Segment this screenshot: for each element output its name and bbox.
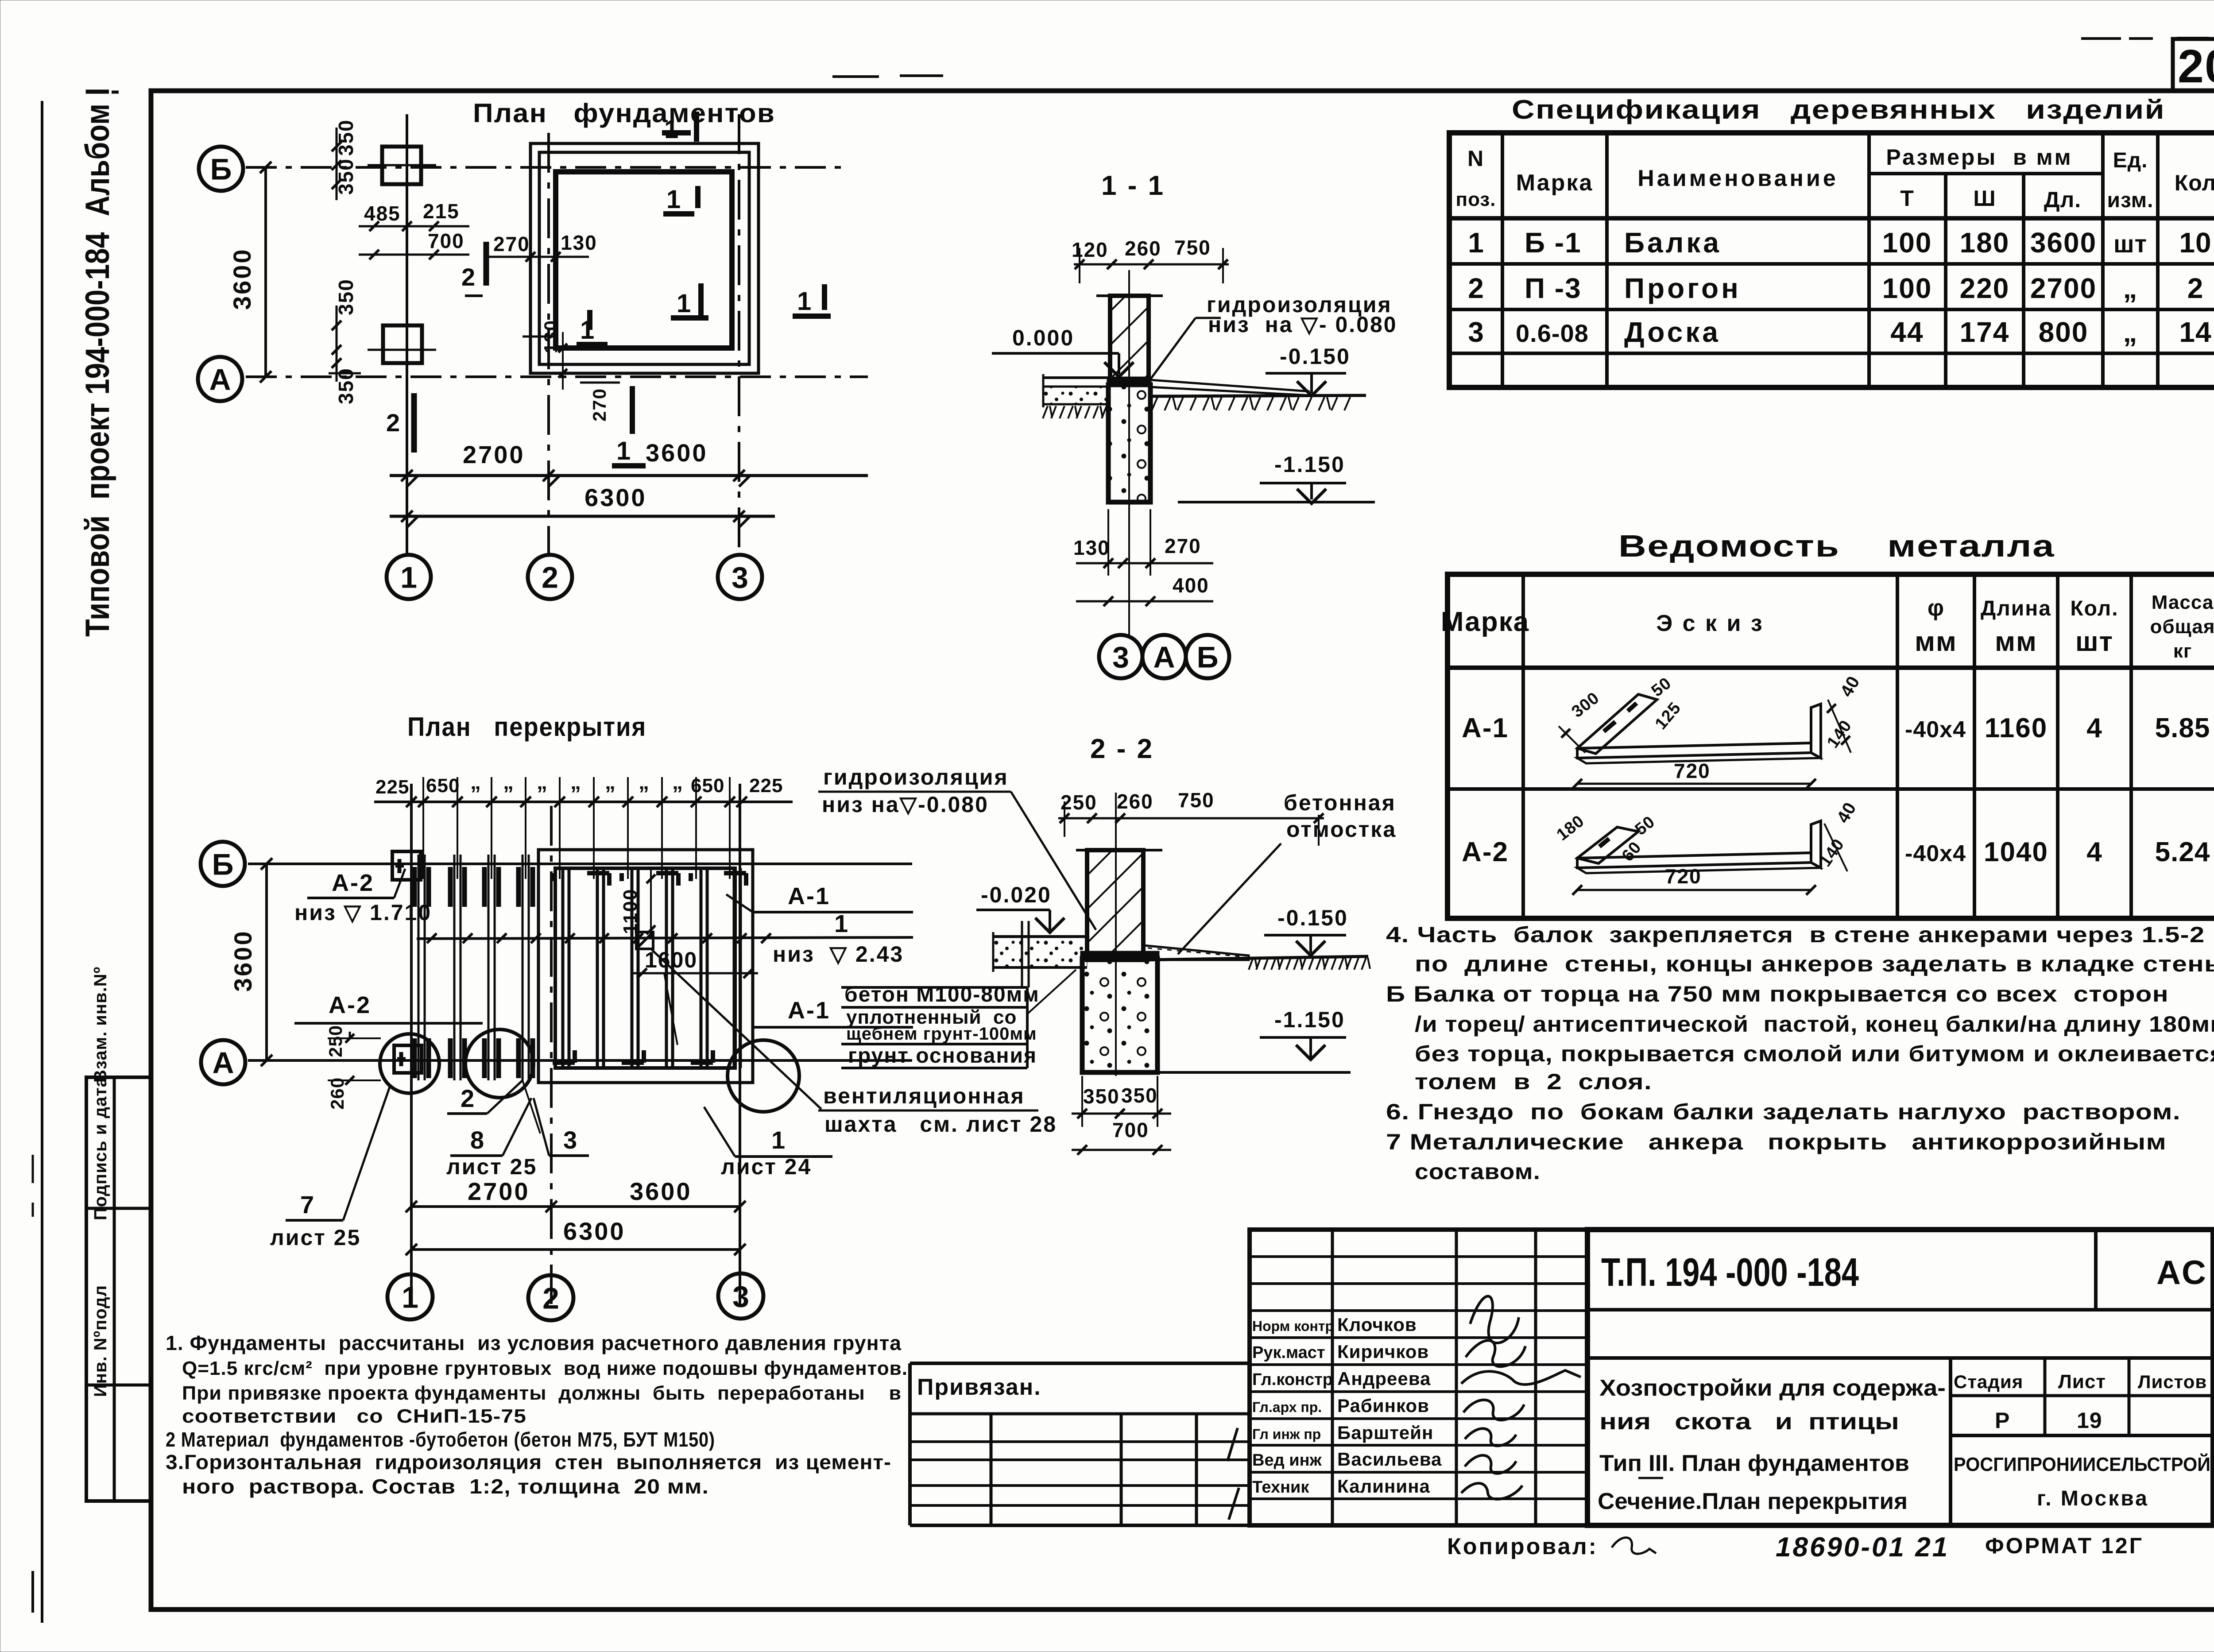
fp leader vent shaft [652,950,821,1109]
svg-text:4: 4 [2086,713,2102,743]
svg-text:низ на ▽- 0.080: низ на ▽- 0.080 [1208,312,1397,337]
svg-text:260: 260 [1117,790,1153,813]
svg-text:N: N [1467,146,1484,171]
svg-text:φ: φ [1928,595,1944,621]
svg-text:3600: 3600 [229,929,257,992]
svg-text:2 Материал фундаментов -бутоб: 2 Материал фундаментов -бутобетон (бетон… [166,1428,715,1451]
axis 2 vertical (fund plan) [547,133,550,556]
svg-text:А-2: А-2 [332,870,374,896]
svg-text:1100: 1100 [619,889,641,934]
svg-text:1: 1 [771,1126,785,1154]
axis 1 vertical (fund plan) [406,114,408,556]
svg-text:3600: 3600 [630,1177,692,1205]
anchor sketch A-2 [1577,853,1811,868]
sec1-1 wall hatched [1110,296,1149,385]
svg-text:шт: шт [2113,230,2147,258]
axis line B (fund plan) [246,166,841,169]
svg-text:Б: Б [210,152,232,186]
svg-text:/и торец/ антисептической пас: /и торец/ антисептической пастой, конец … [1415,1012,2214,1037]
vertical dim 3600 between A and B [264,167,267,377]
svg-text:Т: Т [1900,186,1914,211]
svg-text:А-2: А-2 [329,992,371,1018]
svg-text:270: 270 [1165,534,1201,557]
svg-text:Типовой проект 194-000-184 А: Типовой проект 194-000-184 Альбом I [79,88,116,637]
svg-text:1160: 1160 [1985,713,2048,743]
privyazan block [910,1362,1250,1365]
svg-text:3600: 3600 [646,439,708,467]
svg-text:5.24: 5.24 [2155,837,2210,867]
svg-text:174: 174 [1960,316,2010,348]
svg-text:составом.: составом. [1415,1159,1541,1184]
fund pad at axis B [382,147,421,184]
svg-text:без торца, покрывается смолой: без торца, покрывается смолой или битумо… [1415,1041,2214,1066]
svg-text:Ед.: Ед. [2113,149,2148,172]
svg-text:3: 3 [1468,316,1484,348]
s22 foundation concrete [1082,959,1157,1072]
svg-text:Клочков: Клочков [1337,1314,1417,1335]
svg-text:2: 2 [2187,272,2204,304]
svg-text:Гл.арх пр.: Гл.арх пр. [1252,1399,1322,1415]
svg-text:130: 130 [561,231,597,254]
svg-text:1: 1 [664,115,678,144]
svg-text:Кол: Кол [2175,170,2214,195]
svg-text:грунт основания: грунт основания [848,1044,1037,1068]
svg-text:1: 1 [1468,227,1484,259]
svg-text:изм.: изм. [2107,189,2153,212]
svg-text:130: 130 [1073,536,1110,559]
axis circle 3 [718,555,762,599]
svg-text:2: 2 [1468,272,1484,304]
svg-text:225: 225 [375,776,409,798]
svg-text:3: 3 [732,1280,749,1313]
svg-text:„: „ [470,770,481,794]
s22 wall hatched [1087,850,1143,960]
svg-text:19: 19 [2077,1408,2102,1433]
fp detail circle 1 (list 24) [728,1040,799,1112]
svg-text:650: 650 [691,775,724,797]
svg-text:шахта см. лист 28: шахта см. лист 28 [824,1112,1057,1137]
svg-text:4. Часть балок закрепляется: 4. Часть балок закрепляется в стене анке… [1386,922,2214,947]
svg-text:Ведомость металла: Ведомость металла [1618,529,2055,563]
svg-text:РОСГИПРОНИИСЕЛЬСТРОЙ: РОСГИПРОНИИСЕЛЬСТРОЙ [1954,1453,2210,1475]
svg-text:ния скота и птицы: ния скота и птицы [1599,1409,1899,1435]
fp axis circle 2 [528,1275,573,1320]
svg-text:Размеры в мм: Размеры в мм [1886,145,2072,170]
svg-text:1: 1 [797,287,811,316]
fp building outline outer [538,850,753,1083]
svg-text:Барштейн: Барштейн [1337,1422,1433,1443]
svg-text:Техник: Техник [1252,1478,1309,1497]
svg-text:-1.150: -1.150 [1274,452,1345,477]
s22 otmostka wedge [1143,945,1249,960]
svg-text:Рабинков: Рабинков [1337,1395,1429,1416]
svg-text:Взам. инв.Nº: Взам. инв.Nº [91,967,110,1083]
svg-text:План фундаментов: План фундаментов [473,98,775,128]
fp section line 1 horizontal [417,937,913,939]
fp left part tick pairs bottom [412,1038,417,1078]
svg-text:вентиляционная: вентиляционная [823,1083,1025,1108]
svg-text:2: 2 [461,1084,474,1112]
svg-text:6300: 6300 [584,484,647,511]
svg-text:10: 10 [2179,227,2211,259]
svg-text:А-2: А-2 [1462,837,1509,867]
svg-text:2: 2 [542,561,558,594]
svg-text:Лист: Лист [2058,1371,2106,1393]
svg-text:3600: 3600 [2030,227,2097,259]
fp beam end caps [587,871,609,875]
svg-text:1: 1 [666,185,681,214]
spec table grid [1449,133,2214,387]
svg-text:400: 400 [1173,574,1209,597]
svg-text:-0.020: -0.020 [981,882,1052,907]
svg-text:120: 120 [1072,238,1108,261]
svg-text:6300: 6300 [563,1217,626,1245]
svg-text:485: 485 [364,202,401,225]
svg-text:Б: Б [212,847,234,881]
svg-text:260: 260 [327,1077,348,1110]
axis circle A [198,357,242,401]
svg-text:Балка: Балка [1624,227,1722,259]
svg-text:-1.150: -1.150 [1274,1007,1345,1032]
svg-text:2700: 2700 [463,441,525,468]
metal table grid [1448,574,2214,918]
svg-text:Листов: Листов [2138,1371,2207,1392]
svg-text:толем в 2 слоя.: толем в 2 слоя. [1415,1069,1652,1094]
svg-text:лист 25: лист 25 [270,1225,361,1250]
svg-text:Спецификация деревянных из: Спецификация деревянных изделий [1512,95,2165,124]
fund pad at axis A [383,325,422,363]
svg-text:При привязке проекта фундамент: При привязке проекта фундаменты должны б… [182,1382,902,1404]
svg-text:лист 24: лист 24 [721,1154,812,1179]
fp axis A line [248,1059,912,1062]
strip footing outer rect [530,143,759,373]
svg-text:1: 1 [677,289,691,318]
svg-text:Масса: Масса [2152,592,2214,613]
svg-text:8: 8 [470,1126,484,1154]
svg-text:260: 260 [1125,237,1161,260]
fp left part boards (doski) [418,855,420,1080]
svg-text:Прогон: Прогон [1624,272,1741,304]
fp vertical axis 2 [550,806,553,1304]
sheet number box 20 [2173,39,2214,91]
svg-text:щебнем грунт-100мм: щебнем грунт-100мм [846,1024,1037,1044]
svg-text:Тип III. План фундаментов: Тип III. План фундаментов [1599,1451,1909,1476]
axis line A (fund plan) [246,375,868,378]
svg-text:А: А [212,1046,234,1079]
sec1-1 foundation concrete [1108,385,1150,502]
signatures squiggles [1470,1296,1519,1343]
svg-text:1: 1 [402,1281,418,1314]
svg-text:Доска: Доска [1624,316,1721,348]
svg-text:А: А [1153,640,1175,674]
svg-text:лист 25: лист 25 [446,1154,537,1179]
leader to wall [1149,318,1196,382]
svg-text:„: „ [2123,272,2138,304]
svg-text:100: 100 [1882,227,1932,259]
svg-text:Гл инж пр: Гл инж пр [1252,1426,1321,1442]
svg-text:180: 180 [1960,227,2010,259]
svg-text:„: „ [639,770,649,794]
svg-text:800: 800 [2039,316,2089,348]
s22 ground line right [1143,956,1368,960]
svg-text:Наименование: Наименование [1637,166,1839,191]
svg-text:„: „ [2123,316,2138,348]
svg-text:„: „ [605,770,615,794]
svg-text:Б -1: Б -1 [1525,227,1582,259]
svg-text:А-1: А-1 [788,997,830,1024]
svg-text:мм: мм [1915,627,1957,657]
svg-text:бетонная: бетонная [1284,790,1396,815]
svg-text:7 Металлические анкера пок: 7 Металлические анкера покрыть антикорро… [1386,1130,2167,1154]
svg-text:20: 20 [2178,40,2214,93]
svg-text:Ш: Ш [1973,186,1996,211]
fp vertical dim 3600 [265,864,268,1060]
svg-text:3: 3 [1112,640,1129,674]
svg-text:3600: 3600 [228,248,256,310]
svg-text:поз.: поз. [1456,189,1496,210]
svg-text:Р: Р [1995,1408,2009,1433]
svg-text:„: „ [503,770,514,794]
svg-text:Инв. Nºподл: Инв. Nºподл [91,1285,110,1397]
svg-text:350: 350 [334,119,357,156]
svg-text:720: 720 [1674,759,1711,782]
svg-text:2700: 2700 [468,1177,530,1205]
left mini table (inv numbers) [86,1077,151,1501]
axis 3 vertical (fund plan) [738,114,740,556]
svg-text:-40х4: -40х4 [1905,717,1966,743]
svg-text:250: 250 [325,1025,346,1057]
fp anchor symbol top left A-2 [392,851,421,880]
svg-text:4: 4 [2086,837,2102,867]
scan edge dashes [31,1571,34,1613]
svg-text:Б Балка от торца на 750 мм пок: Б Балка от торца на 750 мм покрывается с… [1386,982,2169,1006]
svg-text:350: 350 [1083,1085,1120,1108]
s22 floor slab left [993,935,1087,938]
title area main [1587,1230,2213,1525]
svg-text:Хозпостройки для содержа-: Хозпостройки для содержа- [1599,1375,1946,1401]
svg-text:1: 1 [400,561,417,594]
svg-text:А-1: А-1 [1462,713,1509,743]
svg-text:6. Гнездо по бокам балки зад: 6. Гнездо по бокам балки заделать наглух… [1386,1099,2181,1124]
svg-text:-40х4: -40х4 [1905,841,1966,867]
svg-text:1040: 1040 [1984,837,2048,867]
fp axis circle 3 [718,1273,763,1319]
svg-text:2: 2 [461,263,475,291]
svg-text:3: 3 [732,561,748,594]
svg-text:Т.П. 194 -000 -184: Т.П. 194 -000 -184 [1601,1250,1859,1295]
fp axis circle A [201,1040,245,1084]
svg-text:-0.150: -0.150 [1277,905,1348,930]
svg-text:700: 700 [1112,1118,1149,1141]
svg-text:270: 270 [493,232,530,255]
svg-text:мм: мм [1995,627,2037,657]
svg-text:1: 1 [616,437,631,465]
svg-text:Копировал:: Копировал: [1447,1534,1598,1559]
sec1-1 otmostka wedge right [1150,380,1310,391]
sec1-1 floor slab left [1043,376,1110,379]
svg-text:720: 720 [1665,865,1702,888]
svg-text:низ ▽ 1.710: низ ▽ 1.710 [294,900,432,925]
svg-text:общая: общая [2150,616,2214,638]
svg-text:Э с к и з: Э с к и з [1656,611,1764,636]
svg-text:225: 225 [749,775,783,797]
svg-text:А: А [209,363,231,396]
sec1-1 ground left hatch [1043,403,1110,406]
fp building inner rect [555,868,735,1068]
fp detail circle 8 [465,1029,534,1098]
svg-text:Дл.: Дл. [2044,187,2081,212]
svg-text:Подпись и дата: Подпись и дата [91,1077,110,1220]
svg-text:соответствии со СНиП-15-75: соответствии со СНиП-15-75 [182,1405,526,1427]
svg-text:по длине стены, концы анкеро: по длине стены, концы анкеров заделать в… [1415,952,2214,976]
svg-text:18690-01 21: 18690-01 21 [1776,1532,1949,1563]
svg-text:ного раствора. Состав 1:2, т: ного раствора. Состав 1:2, толщина 20 мм… [182,1475,709,1498]
axis circle B [199,147,243,191]
svg-text:2 - 2: 2 - 2 [1090,734,1154,764]
axis circle 1 [387,555,431,599]
svg-text:Длина: Длина [1981,597,2051,620]
svg-text:750: 750 [1178,789,1215,812]
scan edge line left [41,101,43,1623]
svg-text:гидроизоляция: гидроизоляция [823,765,1009,789]
fp left part tick pairs top [412,867,417,907]
strip footing outer inner line [539,152,749,364]
svg-text:Привязан.: Привязан. [917,1374,1041,1400]
svg-text:44: 44 [1890,316,1924,348]
fp top dim chain 225+650x9+225 [374,801,793,803]
svg-text:Норм контр: Норм контр [1252,1318,1334,1334]
fp vertical axis 3 [739,784,741,1304]
svg-text:700: 700 [428,229,464,252]
fp detail circle 7 [380,1034,439,1093]
axis circle 2 [528,555,572,599]
svg-text:0.6-08: 0.6-08 [1516,319,1589,347]
svg-text:350: 350 [1121,1084,1158,1107]
svg-text:А-1: А-1 [788,883,830,909]
svg-text:750: 750 [1174,236,1211,259]
svg-text:г. Москва: г. Москва [2037,1487,2149,1510]
svg-text:Q=1.5 кгс/см² при уровне грун: Q=1.5 кгс/см² при уровне грунтовых вод н… [182,1358,908,1379]
svg-text:Б: Б [1197,640,1219,674]
svg-text:шт: шт [2075,627,2113,657]
svg-text:отмостка: отмостка [1286,817,1397,842]
svg-text:низ на▽-0.080: низ на▽-0.080 [822,792,989,817]
fp beams right room [561,868,565,1068]
svg-text:Калинина: Калинина [1337,1476,1430,1497]
sec1-1 axis circles 3 A B [1099,635,1142,678]
svg-text:„: „ [672,770,683,794]
svg-text:-0.150: -0.150 [1280,344,1351,369]
svg-text:Вед инж: Вед инж [1252,1451,1322,1470]
svg-text:270: 270 [589,388,610,422]
svg-text:Киричков: Киричков [1337,1341,1429,1362]
s22 base waterproofing band [1080,951,1159,960]
svg-text:АС: АС [2156,1254,2208,1292]
sec1-1 foundation bottom level line [1178,501,1375,503]
fp axis circle 1 [387,1274,433,1319]
anchor sketch A-1 [1577,743,1811,758]
svg-text:„: „ [570,770,581,794]
svg-text:7: 7 [300,1191,314,1219]
svg-text:215: 215 [423,200,460,223]
fp vertical axis 1 [410,784,413,1304]
svg-text:2700: 2700 [2030,272,2097,304]
svg-text:1. Фундаменты рассчитаны из: 1. Фундаменты рассчитаны из условия расч… [166,1331,902,1354]
svg-text:220: 220 [1960,272,2010,304]
sec1-1 center axis line [1128,270,1130,638]
svg-text:кг: кг [2173,640,2192,662]
strip footing inner thick rect [556,172,732,348]
svg-text:Рук.маст: Рук.маст [1252,1343,1325,1362]
svg-text:Андреева: Андреева [1337,1368,1431,1389]
svg-text:100: 100 [1882,272,1932,304]
svg-text:Гл.констр: Гл.констр [1252,1370,1333,1389]
fp vent shaft square [636,932,653,949]
svg-text:П -3: П -3 [1525,272,1582,304]
svg-text:250: 250 [1061,791,1097,814]
svg-text:ФОРМАТ 12Г: ФОРМАТ 12Г [1985,1533,2144,1558]
svg-text:650: 650 [426,775,460,797]
fp axis B line [248,863,912,865]
sec1-1 base waterproofing band [1107,377,1151,386]
svg-text:0.000: 0.000 [1012,325,1074,350]
svg-text:низ ▽ 2.43: низ ▽ 2.43 [773,942,904,967]
svg-text:2: 2 [386,409,400,437]
svg-text:1 - 1: 1 - 1 [1101,170,1165,201]
sec1-1 ground line right [1149,395,1366,396]
fp anchor symbol bottom left in circle [394,1045,422,1073]
title block: signature table [1250,1230,1587,1525]
svg-text:Стадия: Стадия [1954,1371,2023,1392]
svg-text:„: „ [537,770,547,794]
svg-text:Кол.: Кол. [2070,597,2118,620]
svg-text:3.Горизонтальная гидроизоляци: 3.Горизонтальная гидроизоляция стен выпо… [166,1451,891,1474]
svg-text:Марка: Марка [1516,170,1594,196]
svg-text:5.85: 5.85 [2155,713,2210,743]
svg-text:1: 1 [834,909,848,937]
svg-text:2: 2 [542,1281,559,1315]
svg-text:Марка: Марка [1441,607,1529,637]
svg-text:3: 3 [563,1126,577,1154]
s22 wall axis [1115,793,1117,1076]
svg-text:Васильева: Васильева [1337,1449,1442,1470]
svg-text:План перекрытия: План перекрытия [407,712,646,742]
svg-text:Сечение.План перекрытия: Сечение.План перекрытия [1598,1489,1908,1514]
svg-text:14: 14 [2179,316,2211,348]
svg-text:350: 350 [334,279,357,315]
fp axis circle B [201,842,245,886]
